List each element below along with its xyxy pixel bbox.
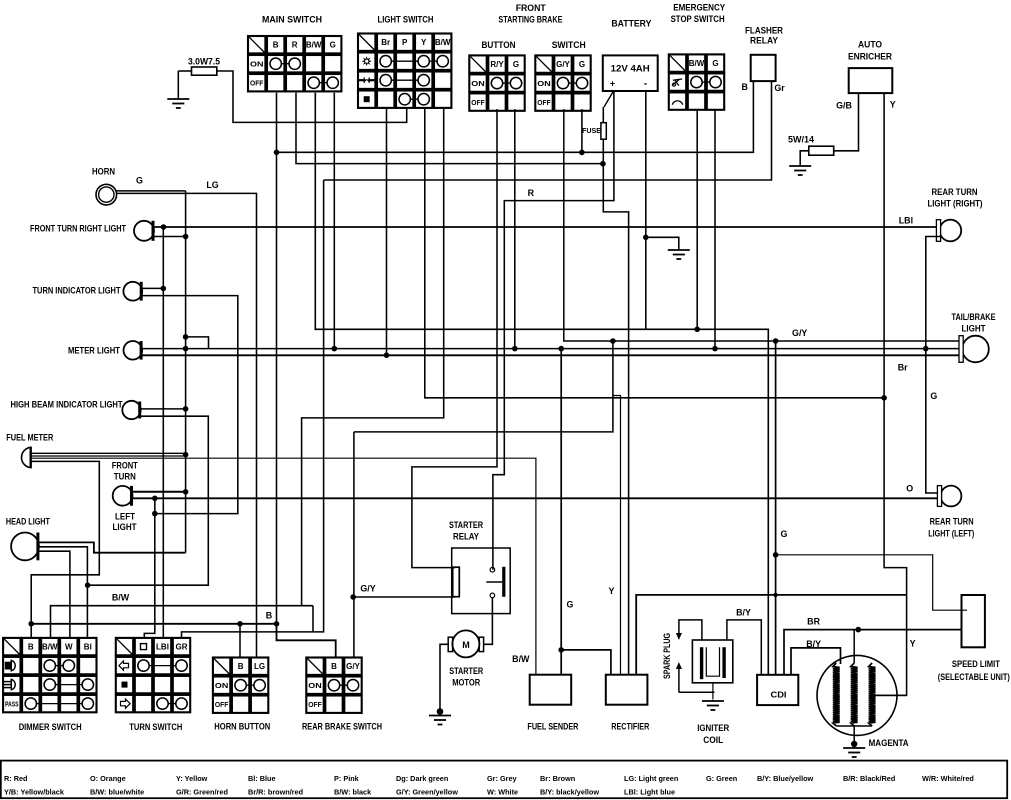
wire R/Y button to starter relay — [412, 109, 497, 567]
svg-text:ON: ON — [215, 681, 228, 690]
svg-text:LEFT: LEFT — [115, 512, 136, 522]
svg-text:BR: BR — [807, 617, 820, 627]
svg-text:Y: Y — [421, 38, 427, 47]
svg-text:AUTO: AUTO — [858, 40, 882, 50]
wire G/Y down to rear brake switch — [353, 432, 355, 658]
svg-text:W: W — [65, 643, 73, 652]
svg-text:G: G — [513, 60, 519, 69]
svg-text:G/Y: G/Y — [360, 584, 375, 594]
svg-text:GR: GR — [176, 643, 188, 652]
svg-text:B/R: Black/Red: B/R: Black/Red — [843, 774, 895, 783]
svg-text:G/R: Green/red: G/R: Green/red — [176, 788, 228, 797]
wire to ground — [646, 237, 679, 249]
wire left light bottom long — [132, 497, 942, 499]
meter light — [124, 341, 143, 360]
svg-text:FRONT TURN RIGHT LIGHT: FRONT TURN RIGHT LIGHT — [30, 224, 126, 234]
node Y junction — [881, 395, 887, 401]
node magneto ground — [851, 741, 857, 747]
svg-text:CDI: CDI — [771, 691, 787, 700]
wire Y light switch to enricher line — [425, 108, 884, 398]
rear turn light left — [941, 486, 962, 507]
auto enricher box — [849, 68, 893, 93]
wire to starter relay — [353, 596, 455, 598]
svg-text:B: B — [741, 82, 747, 92]
svg-text:HORN BUTTON: HORN BUTTON — [214, 721, 270, 731]
svg-text:ENRICHER: ENRICHER — [848, 52, 893, 62]
emergency stop switch table — [669, 54, 724, 109]
speed limit box — [962, 595, 985, 647]
svg-text:P: Pink: P: Pink — [334, 774, 360, 783]
flasher relay box — [751, 55, 776, 81]
wire head light 2 to dimmer Bl — [38, 547, 88, 638]
svg-text:LIGHT (RIGHT): LIGHT (RIGHT) — [928, 199, 983, 209]
svg-text:Y: Yellow: Y: Yellow — [176, 774, 208, 783]
svg-text:B/Y: black/yellow: B/Y: black/yellow — [540, 788, 599, 797]
wire igniter to ground — [712, 683, 714, 700]
wire fuel meter to fuel sender — [31, 458, 536, 675]
node at meter line — [923, 346, 929, 352]
svg-text:Bl: Blue: Bl: Blue — [248, 774, 276, 783]
node left light bottom — [152, 496, 158, 502]
head light — [11, 533, 39, 561]
svg-text:G: G — [567, 600, 574, 610]
svg-text:EMERGENCY: EMERGENCY — [673, 3, 725, 13]
svg-text:(SELECTABLE UNIT): (SELECTABLE UNIT) — [938, 672, 1010, 682]
svg-text:FLASHER: FLASHER — [745, 26, 784, 36]
wire battery - down — [645, 91, 647, 329]
wire R battery to starter relay — [493, 91, 614, 570]
svg-text:B/W: B/W — [42, 643, 58, 652]
svg-text:G/Y: Green/yellow: G/Y: Green/yellow — [396, 788, 458, 797]
node G button at meter line — [512, 346, 518, 352]
node fuse/R junction — [600, 161, 606, 167]
light switch table — [358, 34, 451, 108]
node G at meter line — [332, 346, 338, 352]
svg-text:REAR TURN: REAR TURN — [932, 187, 978, 197]
svg-text:Y: Y — [609, 586, 615, 596]
svg-text:LIGHT: LIGHT — [113, 522, 138, 532]
rear turn light right — [940, 220, 962, 242]
node meter G — [183, 346, 189, 352]
wire turn right bottom — [153, 236, 186, 238]
svg-text:TURN INDICATOR LIGHT: TURN INDICATOR LIGHT — [33, 286, 121, 296]
front brake switch table — [535, 55, 590, 110]
svg-text:B/W: blue/white: B/W: blue/white — [90, 788, 144, 797]
node emergency B/W junction — [694, 327, 700, 333]
wire Br light switch down — [386, 108, 388, 355]
wire LBl vertical to turn switch — [162, 227, 164, 638]
resistor 5W/14 — [809, 146, 834, 155]
wire turn indicator bottom — [141, 296, 238, 514]
svg-text:LBl: LBl — [899, 216, 913, 226]
svg-text:Dg: Dark green: Dg: Dark green — [396, 774, 448, 783]
wire magneto pickup to BR — [853, 630, 855, 663]
starter motor — [452, 630, 479, 657]
svg-text:ON: ON — [471, 79, 484, 88]
wire GR to turn switch — [182, 180, 324, 638]
rectifier box — [606, 675, 648, 705]
wire B/W emergency down — [696, 110, 698, 329]
node G/Y starter relay — [350, 594, 356, 600]
wire spark plug bracket bottom — [679, 691, 715, 693]
wire B/Y CDI to magneto — [791, 648, 841, 675]
svg-text:B/Y: Blue/yellow: B/Y: Blue/yellow — [757, 774, 814, 783]
wire head light 3 to dimmer W — [38, 551, 70, 638]
svg-text:Br: Brown: Br: Brown — [540, 774, 575, 783]
wire fuel meter pair top — [31, 452, 185, 454]
svg-text:STARTER: STARTER — [449, 666, 483, 676]
wire rectifier to magneto Y — [636, 595, 906, 675]
svg-text:3.0W7.5: 3.0W7.5 — [188, 57, 220, 67]
node Br at meter line — [384, 352, 390, 358]
svg-text:G: G — [781, 529, 788, 539]
main switch table — [248, 36, 341, 91]
svg-text:B: B — [238, 662, 244, 671]
svg-text:W/R: White/red: W/R: White/red — [922, 774, 974, 783]
fuel sender box — [530, 675, 572, 705]
svg-text:Br: Br — [381, 38, 390, 47]
svg-text:LG: LG — [206, 180, 218, 190]
node left light top — [183, 489, 189, 495]
svg-text:+: + — [610, 79, 615, 89]
wire B/Y igniter to CDI — [727, 620, 761, 675]
wire battery + diagonal to fuse — [604, 91, 614, 107]
wire to speed limit — [776, 555, 967, 610]
svg-text:G: G — [330, 41, 336, 50]
wire G emergency down — [714, 110, 716, 349]
node high beam top — [183, 406, 189, 412]
svg-text:SPARK PLUG: SPARK PLUG — [662, 633, 672, 679]
turn switch table — [116, 638, 190, 712]
svg-text:RELAY: RELAY — [750, 36, 778, 46]
svg-text:LG: Light green: LG: Light green — [624, 774, 678, 783]
wire B line to flasher relay — [277, 81, 754, 152]
svg-text:PASS: PASS — [5, 699, 18, 708]
wire G/B enricher to 5W/14 — [834, 93, 859, 151]
front turn left light — [113, 486, 133, 506]
node magneto pickup — [856, 627, 862, 633]
svg-text:B/W: B/W — [112, 593, 130, 603]
svg-text:DIMMER SWITCH: DIMMER SWITCH — [19, 722, 82, 732]
svg-text:LBl: Light blue: LBl: Light blue — [624, 788, 675, 797]
svg-text:B/W: B/W — [435, 38, 451, 47]
node G/Y CDI junction — [773, 338, 779, 344]
svg-text:12V 4AH: 12V 4AH — [611, 64, 650, 74]
wire Gr flasher left — [324, 81, 772, 180]
svg-text:LIGHT: LIGHT — [962, 324, 987, 334]
wire high beam bottom to dimmer Bl — [88, 416, 209, 585]
svg-text:O: Orange: O: Orange — [90, 774, 126, 783]
wire head light 1 — [38, 542, 186, 552]
ground magneto — [853, 746, 855, 749]
svg-text:SPEED LIMIT: SPEED LIMIT — [952, 659, 1000, 669]
node speed limit branch — [773, 552, 779, 558]
fuel meter — [22, 447, 31, 467]
battery 12V 4AH — [603, 55, 658, 91]
svg-text:MAIN SWITCH: MAIN SWITCH — [262, 15, 322, 25]
svg-text:R: R — [528, 188, 535, 198]
svg-text:COIL: COIL — [703, 735, 724, 745]
wire 5W/14 left to ground — [800, 151, 809, 165]
CDI box — [757, 675, 798, 705]
turn indicator light — [123, 282, 142, 301]
svg-text:RELAY: RELAY — [453, 532, 479, 542]
wire spark plug bracket up arrow — [678, 668, 680, 692]
wire B to rear brake switch — [277, 624, 336, 658]
svg-text:TAIL/BRAKE: TAIL/BRAKE — [952, 312, 996, 322]
svg-text:BUTTON: BUTTON — [482, 40, 516, 50]
svg-text:Br/R: brown/red: Br/R: brown/red — [248, 788, 303, 797]
svg-text:LIGHT (LEFT): LIGHT (LEFT) — [928, 529, 974, 539]
ground battery — [678, 248, 680, 251]
svg-text:REAR BRAKE SWITCH: REAR BRAKE SWITCH — [302, 721, 382, 731]
svg-text:SWITCH: SWITCH — [552, 40, 586, 50]
svg-text:OFF: OFF — [537, 98, 551, 107]
svg-text:FUEL METER: FUEL METER — [6, 433, 53, 443]
svg-text:TURN SWITCH: TURN SWITCH — [129, 722, 182, 732]
ground 3.0W7.5 — [177, 97, 179, 100]
wire high beam top — [140, 408, 185, 410]
wire B line — [31, 623, 276, 625]
wire G to CDI — [775, 341, 777, 675]
node battery minus — [643, 235, 649, 241]
wire B/W main switch to CDI — [315, 93, 768, 675]
svg-text:FRONT: FRONT — [516, 3, 547, 13]
wire B main switch down — [276, 93, 278, 624]
igniter coil box — [692, 640, 732, 683]
wire Y enricher to magneto — [874, 93, 907, 695]
wire horn G — [116, 190, 185, 192]
wire G/Y front brake switch to tail light — [564, 109, 963, 341]
ground igniter coil — [712, 699, 714, 702]
svg-text:ON: ON — [250, 60, 263, 69]
node switch G junction — [579, 150, 585, 156]
svg-text:STARTING BRAKE: STARTING BRAKE — [498, 15, 562, 25]
svg-text:G/Y: G/Y — [346, 662, 360, 671]
svg-text:M: M — [462, 640, 470, 650]
svg-text:OFF: OFF — [250, 79, 264, 88]
fuse — [601, 123, 606, 140]
wire resistor left — [178, 70, 191, 72]
wire left light top — [132, 491, 186, 493]
svg-text:-: - — [644, 79, 647, 90]
svg-text:B/W: B/W — [306, 41, 322, 50]
wire magneto Y out — [872, 694, 907, 696]
node B to flasher line — [274, 150, 280, 156]
ground 5W/14 — [799, 164, 801, 167]
wire meter light top long — [141, 348, 962, 350]
node crossing — [773, 593, 777, 597]
node meter jog — [183, 334, 189, 340]
svg-text:Gr: Gr — [774, 83, 785, 93]
svg-text:Br: Br — [898, 363, 908, 373]
svg-text:G: G — [136, 176, 143, 186]
wire magneto coils bottom — [836, 725, 872, 727]
svg-text:Gr: Grey: Gr: Grey — [487, 774, 518, 783]
node turn right top — [161, 224, 167, 230]
svg-text:R/Y: R/Y — [490, 60, 504, 69]
svg-text:MAGENTA: MAGENTA — [869, 738, 910, 748]
svg-text:IGNITER: IGNITER — [697, 723, 730, 733]
node dimmer B junction — [28, 621, 34, 627]
wire G main switch down — [333, 93, 335, 349]
node G rectifier branch — [558, 647, 564, 653]
svg-text:REAR TURN: REAR TURN — [930, 517, 974, 527]
wire to turn switch sq col — [144, 498, 155, 638]
starter relay box — [452, 548, 511, 614]
svg-text:5W/14: 5W/14 — [788, 135, 814, 145]
svg-text:R: R — [292, 41, 298, 50]
svg-text:OFF: OFF — [471, 98, 485, 107]
node G meter line — [558, 346, 564, 352]
ground starter motor — [439, 714, 441, 717]
node left light chain — [152, 511, 158, 517]
dimmer switch table — [3, 638, 96, 712]
node turn right bottom — [183, 234, 189, 240]
svg-text:G: Green: G: Green — [706, 774, 737, 783]
wire turn right to rear turn right — [153, 226, 940, 228]
magneto MAGENTA — [817, 655, 897, 735]
svg-text:STOP SWITCH: STOP SWITCH — [671, 14, 725, 24]
svg-text:B/W: B/W — [512, 654, 530, 664]
wire to ground — [177, 71, 179, 98]
igniter coil windings — [700, 647, 703, 679]
wire fuel meter to dimmer B — [31, 461, 99, 638]
starter relay contacts — [453, 567, 460, 597]
horn — [96, 184, 117, 205]
svg-text:ON: ON — [308, 681, 321, 690]
svg-text:FUEL SENDER: FUEL SENDER — [527, 722, 578, 732]
wire front brake switch G col — [581, 109, 583, 152]
svg-text:B/W: B/W — [689, 59, 705, 68]
high beam indicator light — [122, 401, 140, 419]
svg-text:OFF: OFF — [308, 700, 322, 709]
horn button table — [213, 658, 268, 713]
svg-text:BATTERY: BATTERY — [611, 19, 651, 29]
svg-text:B/W: black: B/W: black — [334, 788, 372, 797]
svg-text:G: G — [712, 59, 718, 68]
wire R main switch to fuse line — [296, 93, 603, 164]
svg-text:STARTER: STARTER — [449, 520, 483, 530]
front turn right light — [134, 221, 154, 241]
wire resistor right to light switch P — [217, 71, 407, 122]
svg-text:B: B — [273, 41, 279, 50]
front brake button table — [469, 55, 524, 110]
wire relay to starter motor — [484, 598, 493, 645]
wire to fuse top — [602, 107, 604, 123]
wire rear turn right down to rear turn left — [926, 237, 942, 494]
wire G branch to rectifier — [561, 650, 611, 675]
svg-text:FRONT: FRONT — [112, 461, 138, 471]
svg-text:B/Y: B/Y — [736, 608, 751, 618]
wire meter light bottom long — [141, 354, 962, 356]
svg-text:MOTOR: MOTOR — [452, 678, 480, 688]
wire starter motor to ground — [440, 644, 448, 710]
svg-text:RECTIFIER: RECTIFIER — [611, 722, 649, 732]
node motor ground — [437, 708, 444, 715]
legend box — [1, 761, 1007, 799]
wire G button down — [514, 109, 516, 349]
rear brake switch table — [306, 658, 361, 713]
wire B/W to GR link — [312, 606, 314, 632]
node Bl dimmer — [85, 582, 91, 588]
svg-text:TURN: TURN — [114, 472, 136, 482]
wire BR CDI to speed limit — [784, 630, 962, 675]
resistor 3.0W7.5 — [192, 67, 217, 75]
svg-text:LBl: LBl — [156, 643, 169, 652]
svg-text:G/B: G/B — [836, 101, 852, 111]
wire horn LG to horn button — [116, 193, 256, 657]
node fuel meter G — [183, 452, 189, 458]
svg-text:ON: ON — [537, 79, 550, 88]
svg-text:OFF: OFF — [215, 700, 229, 709]
wire B/W light switch to dimmer line — [302, 108, 444, 606]
wire Y branch to rectifier — [613, 396, 621, 675]
svg-text:G/Y: G/Y — [556, 60, 570, 69]
node G emergency at meter line — [712, 346, 718, 352]
wire to horn button B — [239, 624, 241, 658]
svg-text:HEAD LIGHT: HEAD LIGHT — [6, 517, 50, 527]
svg-text:W: White: W: White — [487, 788, 518, 797]
node horn button B — [237, 621, 243, 627]
svg-text:HIGH BEAM INDICATOR LIGHT: HIGH BEAM INDICATOR LIGHT — [11, 400, 123, 410]
svg-text:P: P — [402, 38, 408, 47]
svg-text:G/Y: G/Y — [792, 328, 807, 338]
wire spark plug bracket top — [679, 620, 702, 640]
svg-text:Y/B: Yellow/black: Y/B: Yellow/black — [4, 788, 65, 797]
svg-text:METER LIGHT: METER LIGHT — [68, 346, 120, 356]
svg-text:LIGHT SWITCH: LIGHT SWITCH — [378, 15, 434, 25]
svg-text:B: B — [28, 643, 34, 652]
svg-text:G: G — [579, 60, 585, 69]
wire G/Y rear brake line — [354, 341, 613, 432]
svg-text:O: O — [906, 484, 913, 494]
node G/Y rear brake junction — [610, 338, 616, 344]
wire meter jog — [186, 337, 209, 349]
svg-text:B: B — [331, 662, 337, 671]
wire G to fuel sender — [560, 349, 562, 675]
wire magneto to ground — [853, 726, 855, 744]
tail brake light — [962, 336, 989, 363]
svg-text:HORN: HORN — [92, 167, 115, 177]
svg-text:Y: Y — [910, 639, 916, 649]
wire B/W line — [51, 606, 314, 638]
svg-text:FUSE: FUSE — [582, 126, 601, 135]
svg-text:Y: Y — [890, 100, 896, 110]
svg-text:R: Red: R: Red — [4, 774, 28, 783]
wire turn indicator top — [141, 287, 163, 289]
node turn indicator top — [161, 286, 167, 292]
svg-text:G: G — [930, 391, 937, 401]
node B main junction — [274, 621, 280, 627]
svg-text:B: B — [266, 611, 272, 621]
svg-text:LG: LG — [254, 662, 265, 671]
svg-text:Bl: Bl — [84, 643, 92, 652]
wire fuel meter pair bottom — [31, 455, 185, 457]
wire fuse to rectifier — [603, 139, 628, 674]
wire G net vertical — [185, 191, 187, 553]
